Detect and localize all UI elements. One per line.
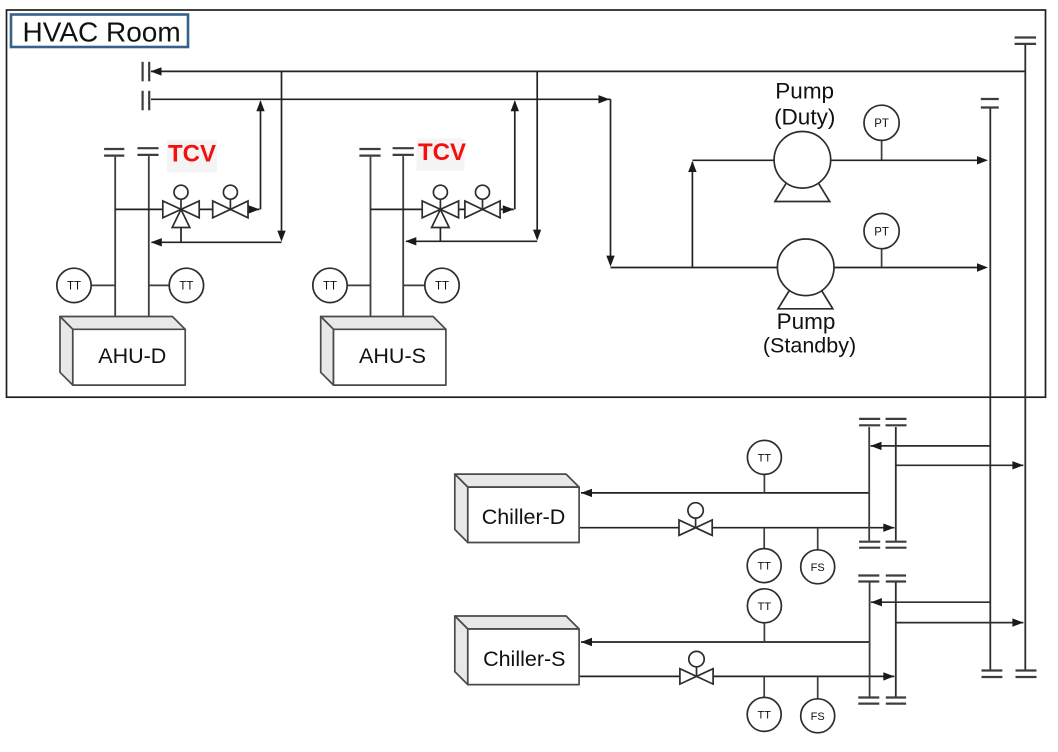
wire: chiller-D crossover supply xyxy=(896,464,1024,466)
inlet flange F1 (top-left upper) xyxy=(143,62,150,82)
svg-text:TT: TT xyxy=(435,281,449,293)
instrument TT (chiller-S return) stem xyxy=(763,623,765,642)
arrow into flange F1 xyxy=(151,67,162,75)
instrument FS (chiller-S) xyxy=(801,699,835,733)
2-way actuator (AHU-D) xyxy=(223,185,237,199)
AHU-D return pipe xyxy=(114,157,116,322)
wire: AHU-S valve line xyxy=(371,208,514,210)
svg-text:TT: TT xyxy=(179,281,193,293)
instrument TT (chiller-D supply) stem xyxy=(763,528,765,549)
chiller-D manifold left pipe xyxy=(868,427,870,541)
svg-text:FS: FS xyxy=(811,562,825,574)
wire: chiller-D crossover return xyxy=(871,445,991,447)
AHU-S box xyxy=(321,317,446,386)
arrow into riser pipe (duty discharge) xyxy=(977,156,988,164)
wire: duty branch riser xyxy=(691,162,693,268)
TCV actuator (AHU-S) xyxy=(433,185,447,199)
svg-text:TCV: TCV xyxy=(168,141,216,168)
wire: AHU-S return drop xyxy=(536,71,538,230)
instrument TT (chiller-S return) xyxy=(747,589,781,623)
chiller-D manifold right bottom flange xyxy=(886,542,907,548)
wire: supply header line B xyxy=(151,98,611,100)
arrow into AHU-S supply pipe xyxy=(405,237,416,245)
wire: chiller-D return line xyxy=(581,492,869,494)
svg-text:PT: PT xyxy=(874,118,889,130)
instrument FS (chiller-D) stem xyxy=(817,528,819,550)
AHU-S flange (return pipe) xyxy=(359,149,380,156)
AHU-D box xyxy=(60,317,185,386)
AHU-S return pipe xyxy=(370,157,372,322)
arrow up into line B xyxy=(511,100,519,111)
instrument TT (AHU-S right) xyxy=(425,268,459,302)
instrument TT (AHU-S left) stub xyxy=(347,284,371,286)
instrument TT (chiller-D return) stem xyxy=(763,474,765,493)
wire: chiller-S crossover return xyxy=(871,601,990,603)
svg-text:Chiller-D: Chiller-D xyxy=(482,505,566,529)
wire: chiller-S return line xyxy=(581,641,870,643)
arrow down AHU-D drop xyxy=(277,231,285,242)
valve 2-way (AHU-S) xyxy=(465,199,500,218)
chiller-S manifold left pipe xyxy=(869,583,871,697)
riser pipe (to chillers, right) flange top xyxy=(1015,38,1037,44)
HVAC Room boundary xyxy=(7,10,1046,397)
wire: return header line A xyxy=(151,70,1025,72)
wire: chiller-D supply line xyxy=(579,527,894,529)
chiller-S manifold right bottom flange xyxy=(886,698,906,704)
svg-text:TT: TT xyxy=(323,281,337,293)
arrow into chiller-D xyxy=(581,489,592,497)
2-way actuator (AHU-S) xyxy=(476,185,490,199)
pump Standby foot xyxy=(778,290,833,308)
chiller-S manifold right top flange xyxy=(886,576,906,582)
wire: 3-way bottom port AHU-D xyxy=(180,228,182,243)
chiller-D manifold left bottom flange xyxy=(859,542,880,548)
svg-text:TT: TT xyxy=(757,561,771,573)
chiller-D manifold left top flange xyxy=(859,419,880,425)
svg-text:TT: TT xyxy=(758,452,772,464)
chiller-D manifold right pipe xyxy=(895,427,897,541)
Chiller-D box xyxy=(455,474,579,542)
Chiller-S box xyxy=(455,616,579,685)
instrument TT (chiller-S supply) xyxy=(747,697,781,731)
arrow into corner riser AHU-S xyxy=(503,205,514,213)
AHU-S supply pipe xyxy=(402,156,404,322)
svg-text:PT: PT xyxy=(874,226,889,238)
instrument TT (AHU-D left) xyxy=(57,268,91,302)
arrow down into suction header xyxy=(606,256,614,267)
arrow into right riser (chiller-D supply) xyxy=(1012,461,1023,469)
AHU-D flange (supply pipe) xyxy=(137,148,158,155)
wire: AHU-D riser to line B xyxy=(260,102,262,210)
riser pipe left (x=990) xyxy=(989,109,991,671)
arrow at end of line B xyxy=(599,95,610,103)
pump Duty foot xyxy=(775,183,830,201)
arrow down AHU-S drop xyxy=(533,230,541,241)
TCV actuator (AHU-D) xyxy=(174,185,188,199)
svg-text:AHU-S: AHU-S xyxy=(359,344,426,368)
chiller-S manifold right pipe xyxy=(895,583,897,697)
instrument TT (AHU-S right) stub xyxy=(403,284,425,286)
arrow into manifold right pipe (chiller-S supply) xyxy=(883,672,894,680)
instrument TT (AHU-D left) stub xyxy=(91,284,115,286)
instrument FS (chiller-D) xyxy=(801,550,835,584)
wire: AHU-S riser to line B xyxy=(514,102,516,210)
svg-text:(Standby): (Standby) xyxy=(763,333,856,357)
AHU-D supply pipe xyxy=(148,156,150,322)
arrow up into duty line xyxy=(688,161,696,172)
chiller-S manifold left top flange xyxy=(858,576,879,582)
pump Standby body xyxy=(777,239,834,296)
svg-text:(Duty): (Duty) xyxy=(774,104,835,129)
svg-text:FS: FS xyxy=(811,711,825,723)
arrow into manifold right pipe (chiller-D supply) xyxy=(883,524,894,532)
wire: AHU-S return run xyxy=(406,240,537,242)
svg-text:TT: TT xyxy=(67,281,81,293)
svg-text:TT: TT xyxy=(758,601,772,613)
arrow into corner riser AHU-D xyxy=(249,205,260,213)
HVAC Room label box xyxy=(11,15,188,48)
wire: 3-way bottom port AHU-S xyxy=(439,228,441,242)
valve 2-way (AHU-D) xyxy=(213,199,248,218)
instrument PT (standby) stem xyxy=(881,249,883,268)
wire: AHU-D return run xyxy=(152,241,282,243)
svg-text:TCV: TCV xyxy=(418,139,466,166)
instrument TT (AHU-S left) xyxy=(313,268,347,302)
svg-text:Pump: Pump xyxy=(775,79,834,104)
TCV label AHU-S xyxy=(417,139,465,171)
instrument TT (chiller-D supply) xyxy=(747,549,781,583)
valve TCV 3-way (AHU-S) xyxy=(422,199,458,227)
instrument TT (AHU-D right) xyxy=(169,268,203,302)
arrow into manifold left pipe (chiller-D) xyxy=(871,442,882,450)
valve TCV 3-way (AHU-D) xyxy=(163,199,199,227)
instrument FS (chiller-S) stem xyxy=(817,676,819,698)
valve chiller-S xyxy=(680,666,713,684)
wire: chiller-S supply line xyxy=(579,675,894,677)
svg-text:TT: TT xyxy=(757,709,771,721)
instrument TT (chiller-D return) xyxy=(747,440,781,474)
arrow into AHU-D supply pipe xyxy=(151,238,162,246)
svg-text:Pump: Pump xyxy=(777,309,836,334)
instrument PT (standby) xyxy=(864,214,899,249)
valve chiller-D actuator xyxy=(688,503,703,518)
instrument TT (chiller-S supply) stem xyxy=(763,676,765,697)
riser left bottom flange xyxy=(982,671,1003,678)
chiller-S manifold left bottom flange xyxy=(858,698,879,704)
instrument PT (duty) stem xyxy=(881,141,883,160)
arrow into riser pipe (standby discharge) xyxy=(977,263,988,271)
wire: chiller-S crossover supply xyxy=(896,622,1024,624)
riser pipe right (x=1025) xyxy=(1024,45,1026,671)
pump Duty body xyxy=(774,132,831,189)
TCV label AHU-D xyxy=(167,140,217,172)
svg-text:HVAC Room: HVAC Room xyxy=(23,17,181,48)
riser right bottom flange xyxy=(1016,671,1037,678)
arrow into chiller-S xyxy=(581,638,592,646)
instrument TT (AHU-D right) stub xyxy=(149,284,169,286)
instrument PT (duty) xyxy=(864,105,899,140)
inlet flange F2 (top-left lower) xyxy=(143,91,150,111)
wire: duty pump line xyxy=(692,159,978,161)
arrow into manifold left pipe (chiller-S) xyxy=(871,598,882,606)
valve chiller-D xyxy=(679,517,712,535)
chiller-D manifold right top flange xyxy=(886,419,907,425)
valve chiller-S actuator xyxy=(689,651,704,666)
wire: AHU-D valve line xyxy=(115,208,259,210)
AHU-D flange (return pipe) xyxy=(104,149,124,156)
AHU-S flange (supply pipe) xyxy=(393,148,414,155)
svg-text:AHU-D: AHU-D xyxy=(98,344,166,368)
arrow into right riser (chiller-S supply) xyxy=(1012,618,1023,626)
riser pipe (to chillers, left) flange top xyxy=(981,99,999,108)
wire: AHU-D return drop xyxy=(281,71,283,231)
wire: pump suction header xyxy=(611,267,979,269)
wire: pump suction drop from line B xyxy=(610,99,612,256)
arrow up into line B xyxy=(256,100,264,111)
svg-text:Chiller-S: Chiller-S xyxy=(483,647,565,671)
